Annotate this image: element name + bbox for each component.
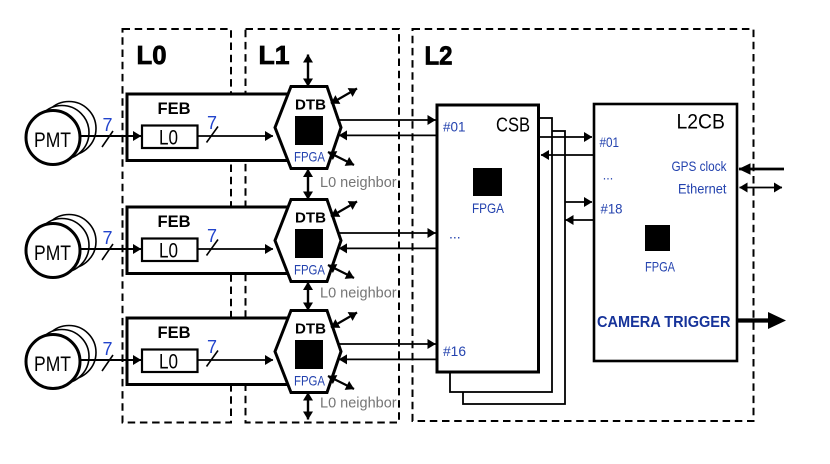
wire PMT to L0 — [80, 135, 141, 137]
wire L0-neighbor arrow above DTB1 — [307, 55, 309, 87]
wire diagonal bottom-right 3 — [328, 376, 354, 389]
row 3 : PMT FEB DTB — [26, 311, 437, 393]
wire CSB to DTB3 — [339, 358, 437, 360]
svg-text:FPGA: FPGA — [294, 149, 326, 165]
svg-text:#01: #01 — [443, 119, 466, 135]
svg-text:DTB: DTB — [295, 210, 326, 227]
wire CSB to DTB2 — [339, 247, 437, 249]
DTB hexagon — [275, 87, 341, 169]
L0 block 2 — [142, 239, 198, 262]
DTB3 hexagon — [275, 311, 341, 393]
svg-text:L2CB: L2CB — [677, 110, 726, 134]
wire diagonal top-right — [331, 89, 357, 104]
svg-text:FPGA: FPGA — [294, 373, 326, 389]
dashed region L1 — [246, 29, 400, 423]
svg-text:FEB: FEB — [158, 323, 191, 342]
CSB stacked board 2 — [450, 118, 552, 392]
svg-text:7: 7 — [207, 226, 217, 246]
svg-text:DTB: DTB — [295, 321, 326, 338]
bus slash 1 row2 — [102, 244, 113, 260]
DTB3 FPGA chip — [295, 340, 323, 369]
wire L0-neighbor arrow DTB1-DTB2 — [307, 169, 309, 200]
bus slash 2 — [207, 127, 219, 143]
svg-text:Ethernet: Ethernet — [678, 181, 727, 197]
PMT front circle — [26, 111, 80, 165]
DTB2 hexagon — [275, 200, 341, 282]
svg-text:GPS clock: GPS clock — [672, 158, 728, 174]
svg-text:7: 7 — [103, 115, 113, 135]
PMT back circle 3 — [42, 102, 96, 156]
PMT3 back circle 3 — [42, 326, 96, 380]
PMT2 back circle 3 — [42, 215, 96, 269]
svg-text:L1: L1 — [259, 40, 290, 70]
bus slash 1 — [102, 131, 113, 147]
wire L2CB to CSB stack 2 — [566, 219, 595, 221]
DTB2 FPGA chip — [295, 229, 323, 258]
svg-text:7: 7 — [103, 228, 113, 248]
svg-text:L0 neighbor: L0 neighbor — [320, 396, 397, 412]
svg-text:...: ... — [603, 169, 613, 183]
dashed region L2 — [413, 29, 754, 421]
svg-text:...: ... — [449, 226, 461, 242]
PMT3 back circle 2 — [35, 330, 89, 384]
FEB box U1 — [127, 94, 307, 161]
svg-text:#18: #18 — [601, 201, 623, 217]
wire diagonal top-right 3 — [331, 313, 357, 328]
wire L0-neighbor arrow DTB2-DTB3 — [307, 282, 309, 311]
svg-text:L0: L0 — [137, 40, 167, 70]
wire L0 to DTB3 — [198, 359, 274, 361]
CSB board — [437, 105, 539, 372]
svg-text:L0: L0 — [159, 349, 178, 373]
svg-text:DTB: DTB — [295, 97, 326, 114]
wire L0 to DTB — [198, 135, 274, 137]
wire CSB to L2CB 1 — [539, 136, 593, 138]
PMT2 front circle — [26, 224, 80, 278]
svg-text:PMT: PMT — [34, 129, 71, 152]
wire CAMERA TRIGGER out — [737, 318, 772, 322]
wire PMT2 to L0 — [80, 248, 141, 250]
svg-text:FPGA: FPGA — [472, 200, 505, 216]
arrowhead CAMERA TRIGGER — [768, 312, 786, 329]
svg-text:FEB: FEB — [158, 99, 191, 118]
svg-text:CAMERA TRIGGER: CAMERA TRIGGER — [597, 314, 731, 331]
svg-text:7: 7 — [103, 339, 113, 359]
svg-text:L0: L0 — [159, 238, 178, 262]
wire CSB stack to L2CB 2 — [565, 201, 593, 203]
wire diagonal bottom-right — [328, 152, 354, 165]
wire diagonal top-right 2 — [331, 202, 357, 217]
PMT back circle 2 — [35, 106, 89, 160]
svg-text:#01: #01 — [600, 135, 620, 150]
FEB box U3 — [127, 318, 307, 385]
FEB box U2 — [127, 207, 307, 274]
wire GPS clock in — [739, 168, 784, 171]
svg-text:L0: L0 — [159, 125, 178, 149]
wire diagonal bottom-right 2 — [328, 265, 354, 278]
svg-text:L0 neighbor: L0 neighbor — [320, 286, 397, 302]
bus slash 2 row2 — [207, 240, 219, 256]
wire L0 to DTB2 — [198, 248, 274, 250]
wire L2CB to CSB 1 — [541, 154, 594, 156]
svg-text:FPGA: FPGA — [645, 259, 676, 275]
L2CB board — [594, 104, 737, 361]
svg-text:7: 7 — [207, 113, 217, 133]
svg-text:FPGA: FPGA — [294, 262, 326, 278]
svg-text:L2: L2 — [425, 41, 453, 71]
wire CSB to DTB — [339, 134, 437, 136]
dashed region L0 — [123, 29, 232, 423]
bus slash 2 row3 — [207, 351, 219, 367]
wire DTB to CSB — [338, 119, 436, 121]
svg-text:CSB: CSB — [496, 115, 530, 137]
L0 block 3 — [142, 350, 198, 373]
CSB stacked board 3 — [463, 131, 565, 404]
row 1 : PMT FEB DTB — [26, 87, 437, 169]
PMT3 front circle — [26, 335, 80, 389]
wire L0-neighbor arrow below DTB3 — [307, 393, 309, 420]
wire Ethernet bidirectional — [740, 187, 783, 189]
svg-text:#16: #16 — [443, 343, 466, 359]
L0 block — [142, 126, 198, 149]
L2CB FPGA chip — [645, 225, 670, 251]
wire PMT3 to L0 — [80, 359, 141, 361]
wire DTB3 to CSB — [338, 343, 436, 345]
CSB FPGA chip — [473, 168, 502, 196]
PMT2 back circle 2 — [35, 219, 89, 273]
svg-text:7: 7 — [207, 337, 217, 357]
svg-text:PMT: PMT — [34, 353, 71, 376]
svg-text:FEB: FEB — [158, 212, 191, 231]
DTB FPGA chip — [295, 116, 323, 145]
wire DTB2 to CSB — [338, 232, 436, 234]
bus slash 1 row3 — [102, 355, 113, 371]
row 2 : PMT FEB DTB — [26, 200, 437, 282]
svg-text:L0 neighbor: L0 neighbor — [320, 175, 397, 191]
svg-text:PMT: PMT — [34, 242, 71, 265]
